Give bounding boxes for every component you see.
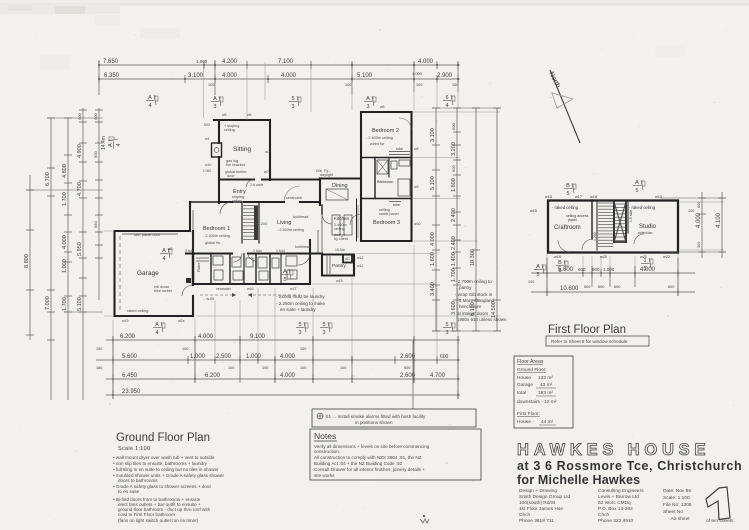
svg-text:5: 5	[322, 322, 325, 328]
svg-text:w16: w16	[545, 195, 552, 199]
chimney circle	[214, 148, 219, 153]
svg-text:Date: Nov 96: Date: Nov 96	[663, 488, 691, 494]
svg-text:w12: w12	[357, 256, 363, 260]
bath tub	[398, 179, 410, 196]
svg-text:ceiling: ceiling	[334, 227, 345, 231]
svg-text:ceiling: ceiling	[224, 128, 235, 132]
svg-text:Phone 322 4910: Phone 322 4910	[598, 518, 634, 524]
svg-text:bulkhead: bulkhead	[295, 245, 310, 249]
svg-text:3: 3	[213, 104, 216, 110]
svg-text:w19: w19	[122, 319, 128, 323]
first floor stair treads	[598, 202, 626, 246]
svg-text:global fin...: global fin...	[205, 241, 223, 245]
svg-text:1.700: 1.700	[62, 297, 68, 311]
svg-text:4.700: 4.700	[77, 182, 83, 196]
svg-text:3: 3	[366, 104, 369, 110]
svg-text:P.O. Box 13-282: P.O. Box 13-282	[598, 506, 633, 512]
svg-text:1.000: 1.000	[603, 267, 615, 272]
right side dims first floor	[701, 192, 703, 258]
svg-text:w13: w13	[336, 279, 342, 283]
bottom dims labels	[96, 334, 449, 395]
svg-text:4.000: 4.000	[418, 59, 434, 65]
svg-text:1.700: 1.700	[62, 192, 68, 206]
lower band partitions	[192, 254, 194, 285]
svg-text:w8: w8	[414, 147, 419, 151]
wing hallway walls	[356, 199, 358, 241]
lower band bottom wall y284	[193, 283, 310, 285]
svg-text:180: 180	[96, 366, 102, 370]
svg-text:5.100: 5.100	[430, 176, 436, 190]
kitchen bench	[317, 230, 319, 253]
section marker A/3 top	[211, 96, 223, 110]
svg-text:w15: w15	[530, 209, 537, 213]
svg-text:• full tiling in en suite to: • full tiling in en suite to ceiling but…	[113, 467, 219, 472]
bed3 robe slats	[389, 201, 401, 203]
section marker 6/4 top	[443, 95, 455, 109]
sitting room walls	[214, 119, 270, 121]
svg-text:1.000: 1.000	[196, 59, 208, 64]
svg-text:Sitting: Sitting	[233, 146, 251, 153]
bed2 robe slats	[389, 154, 410, 156]
left dimension lines	[26, 108, 103, 400]
garage post	[186, 278, 191, 283]
svg-text:w7: w7	[265, 149, 271, 154]
svg-text:1.000: 1.000	[62, 259, 68, 273]
svg-text:100: 100	[208, 83, 214, 87]
section marker 5/3 bottom	[296, 322, 308, 336]
svg-text:3 fold: 3 fold	[185, 249, 194, 253]
svg-text:6.350: 6.350	[104, 73, 120, 79]
svg-text:w5: w5	[247, 113, 252, 117]
paper noise specks	[336, 505, 337, 507]
svg-text:of ten sheets: of ten sheets	[706, 518, 734, 524]
svg-text:500: 500	[204, 123, 210, 127]
svg-text:51 ... Install smoke alarms f: 51 ... Install smoke alarms fitted with …	[326, 414, 426, 419]
scanner artifacts top edge	[0, 0, 749, 6]
section marker 5/3c bottom	[443, 322, 455, 336]
svg-text:2.6 wide: 2.6 wide	[250, 183, 263, 187]
svg-text:3: 3	[322, 330, 325, 336]
first floor dimension lines	[531, 192, 726, 296]
svg-text:A: A	[162, 248, 166, 254]
svg-text:600: 600	[598, 285, 604, 289]
svg-text:- 2.700m ceiling to: - 2.700m ceiling to	[455, 279, 492, 284]
svg-text:- raked ceiling: - raked ceiling	[629, 205, 656, 210]
svg-text:- 2.400m ceiling: - 2.400m ceiling	[277, 228, 304, 232]
svg-text:door: door	[227, 174, 235, 178]
svg-text:Bathroom: Bathroom	[377, 180, 393, 184]
bedroom2 / bathroom partition walls	[361, 157, 412, 159]
vanity	[399, 160, 410, 166]
svg-text:panel: panel	[568, 218, 577, 222]
svg-text:Bedroom 3: Bedroom 3	[373, 220, 400, 226]
svg-text:rolled fan: rolled fan	[638, 231, 652, 235]
svg-text:900: 900	[93, 151, 98, 158]
svg-text:w17: w17	[575, 195, 582, 199]
svg-text:100: 100	[340, 366, 346, 370]
section marker A/5 above first floor	[633, 180, 645, 194]
garage door track	[122, 233, 178, 235]
svg-text:10.600: 10.600	[560, 286, 579, 292]
right dims rotated labels	[430, 123, 497, 318]
top dimension labels	[103, 59, 458, 87]
svg-text:Robe: Robe	[196, 262, 201, 272]
verandah dashed lines	[200, 293, 300, 297]
svg-text:Chch: Chch	[598, 512, 610, 518]
svg-text:Consulting Engineers: Consulting Engineers	[598, 488, 644, 494]
svg-text:Pantry: Pantry	[332, 263, 346, 269]
svg-text:600: 600	[404, 366, 410, 370]
svg-text:• wall mount dryer over wash: • wall mount dryer over wash tub + vent …	[113, 455, 215, 460]
svg-text:5.100: 5.100	[77, 297, 83, 311]
svg-text:w4: w4	[205, 137, 210, 141]
svg-text:A: A	[148, 95, 152, 101]
svg-text:3.100: 3.100	[188, 73, 204, 79]
svg-text:5: 5	[291, 96, 294, 102]
svg-text:A: A	[155, 322, 159, 328]
svg-text:133 m²: 133 m²	[538, 375, 553, 381]
svg-text:43 m²: 43 m²	[540, 382, 553, 388]
svg-text:Building Act :04 + the NZ Buil: Building Act :04 + the NZ Building Code …	[314, 461, 403, 466]
svg-text:Notes: Notes	[314, 431, 336, 441]
svg-text:w16: w16	[247, 287, 253, 291]
svg-text:in positions shown: in positions shown	[355, 420, 393, 425]
ground floor bullet notes	[113, 455, 224, 523]
first floor dim labels	[528, 202, 722, 292]
wc	[391, 161, 397, 169]
svg-text:1.000: 1.000	[246, 354, 262, 360]
svg-text:6.450: 6.450	[122, 373, 138, 379]
svg-text:4: 4	[148, 103, 151, 109]
bedroom1 walls	[189, 202, 191, 231]
right wing outer walls	[361, 112, 412, 241]
svg-text:6.100: 6.100	[470, 302, 476, 316]
svg-text:6.700: 6.700	[45, 172, 51, 186]
svg-text:4.100: 4.100	[716, 212, 722, 228]
svg-text:100: 100	[528, 280, 534, 284]
svg-text:600: 600	[614, 285, 620, 289]
svg-text:bulkhead: bulkhead	[293, 215, 308, 219]
svg-text:w1b: w1b	[205, 163, 211, 167]
svg-text:Sheet No: Sheet No	[663, 509, 683, 515]
svg-text:15.5dc: 15.5dc	[335, 248, 345, 252]
svg-text:8.800: 8.800	[24, 254, 30, 268]
svg-text:Bedroom 1: Bedroom 1	[203, 226, 230, 232]
svg-text:Craftroom: Craftroom	[554, 225, 581, 231]
dining left wall	[319, 179, 321, 206]
svg-text:3.600: 3.600	[451, 301, 457, 315]
svg-text:6.200: 6.200	[120, 334, 136, 340]
svg-text:4.000: 4.000	[430, 232, 436, 246]
svg-text:Refer to Sheet 6 for window sc: Refer to Sheet 6 for window schedule	[551, 339, 628, 344]
svg-text:1.5 side: 1.5 side	[629, 210, 633, 222]
svg-text:1.000: 1.000	[190, 354, 206, 360]
svg-text:en suite + laundry: en suite + laundry	[280, 307, 316, 312]
svg-text:A: A	[635, 180, 639, 186]
wing hallway slats	[357, 205, 359, 238]
svg-text:5.600: 5.600	[122, 354, 138, 360]
svg-text:1.400: 1.400	[451, 252, 457, 266]
svg-text:150: 150	[96, 347, 102, 351]
top dimension lines	[99, 60, 460, 95]
svg-text:2.400: 2.400	[451, 208, 457, 222]
svg-text:100: 100	[300, 366, 306, 370]
svg-text:Garage: Garage	[517, 382, 533, 388]
svg-text:23.950: 23.950	[122, 389, 141, 395]
svg-text:4.000: 4.000	[280, 373, 296, 379]
svg-text:Dining: Dining	[332, 183, 348, 189]
svg-text:193 m²: 193 m²	[538, 390, 553, 396]
svg-text:All construction to comply wit: All construction to comply with NZS 3604…	[314, 455, 422, 460]
svg-text:3.200: 3.200	[451, 142, 457, 156]
svg-text:raked ceiling: raked ceiling	[127, 309, 148, 313]
svg-text:4.000: 4.000	[640, 267, 656, 273]
robe closet lines lower band	[196, 257, 209, 259]
svg-text:A: A	[283, 269, 287, 275]
svg-text:verandah: verandah	[286, 196, 302, 200]
svg-text:4.800: 4.800	[62, 164, 68, 178]
svg-text:600: 600	[584, 285, 590, 289]
svg-text:w18: w18	[590, 195, 597, 199]
svg-text:3: 3	[298, 330, 301, 336]
svg-text:600: 600	[451, 123, 456, 130]
svg-text:100(south) Rd/St: 100(south) Rd/St	[519, 500, 556, 506]
svg-text:sec. panel door: sec. panel door	[134, 233, 161, 237]
svg-text:Phone 3618 711: Phone 3618 711	[519, 518, 554, 524]
svg-text:600: 600	[440, 354, 449, 360]
sitting bottom / dining top wall y179.5	[219, 178, 320, 180]
window schedule reference box	[546, 336, 649, 346]
svg-text:robe: robe	[396, 147, 403, 151]
svg-text:900: 900	[592, 267, 600, 272]
plan notes near garage	[276, 294, 326, 312]
stair treads ground floor	[243, 206, 258, 241]
svg-text:5.950: 5.950	[77, 242, 83, 256]
svg-text:3.400: 3.400	[430, 282, 436, 296]
svg-text:A: A	[366, 96, 370, 102]
svg-text:- wrap Gib stock in: - wrap Gib stock in	[455, 292, 493, 297]
svg-text:• non slip tiles to ensuite,: • non slip tiles to ensuite, bathrooms +…	[113, 461, 208, 466]
svg-text:4: 4	[162, 256, 165, 262]
svg-text:A: A	[536, 264, 540, 270]
svg-text:1st Floor James Hse: 1st Floor James Hse	[519, 506, 563, 512]
svg-text:pantry: pantry	[459, 285, 472, 290]
svg-text:Smith Design Group Ltd: Smith Design Group Ltd	[519, 494, 571, 500]
svg-text:7.000: 7.000	[45, 296, 51, 310]
svg-text:62 Worc CMDq: 62 Worc CMDq	[598, 500, 631, 506]
svg-text:5: 5	[566, 191, 569, 197]
svg-text:w6: w6	[380, 105, 385, 109]
svg-text:2.900: 2.900	[437, 73, 453, 79]
svg-text:Design + Drawing: Design + Drawing	[519, 488, 557, 494]
svg-text:w20: w20	[600, 255, 607, 259]
svg-text:1980x 610 unless shown: 1980x 610 unless shown	[457, 317, 507, 322]
svg-text:- 2.250m ceiling to make: - 2.250m ceiling to make	[276, 301, 326, 306]
section marker 1/5 below first floor	[641, 258, 653, 272]
left dimension rotated labels	[24, 113, 107, 311]
svg-text:4.700: 4.700	[430, 373, 446, 379]
svg-text:2 fold: 2 fold	[253, 249, 262, 253]
svg-text:Garage: Garage	[137, 270, 159, 277]
svg-text:Ground Floor:: Ground Floor:	[517, 367, 547, 373]
stairwell walls	[241, 203, 243, 243]
svg-text:4.000: 4.000	[696, 212, 702, 228]
svg-text:3: 3	[291, 104, 294, 110]
svg-text:Chch: Chch	[519, 512, 531, 518]
svg-text:4.000: 4.000	[198, 334, 214, 340]
svg-text:500: 500	[93, 113, 98, 120]
first floor labels	[530, 195, 670, 259]
svg-text:cowl to First Floor bathroom: cowl to First Floor bathroom	[118, 512, 175, 517]
svg-text:w2a: w2a	[178, 319, 184, 323]
svg-text:7.650: 7.650	[103, 59, 119, 65]
svg-text:First Floor Plan: First Floor Plan	[548, 324, 626, 336]
svg-text:+2.200: +2.200	[255, 221, 268, 226]
svg-text:Studio: Studio	[639, 224, 657, 230]
svg-text:14.4m: 14.4m	[101, 136, 107, 150]
section marker A/4 in garage	[160, 248, 172, 262]
section marker A/4 top	[146, 95, 158, 109]
svg-text:Consult Drawer for all interio: Consult Drawer for all interior finishes…	[314, 467, 425, 472]
svg-text:First Floor:: First Floor:	[517, 411, 540, 417]
svg-text:w9: w9	[414, 185, 419, 189]
svg-text:1.000: 1.000	[412, 71, 423, 76]
svg-text:100: 100	[300, 347, 306, 351]
svg-text:5: 5	[558, 268, 561, 274]
section marker A/3b top	[364, 96, 376, 110]
bed1 wardrobe	[192, 210, 194, 248]
section marker B/5 below first floor	[556, 260, 568, 274]
svg-text:3.100: 3.100	[430, 128, 436, 142]
svg-text:Scale: 1:100: Scale: 1:100	[663, 495, 690, 501]
leader line to smoke box	[412, 341, 414, 409]
sitting chimney	[212, 143, 222, 157]
svg-text:600: 600	[668, 285, 674, 289]
svg-text:5: 5	[283, 277, 286, 283]
small annotations ground floor	[122, 105, 420, 323]
svg-text:100: 100	[262, 366, 268, 370]
title block small text column 1	[519, 488, 571, 524]
svg-text:100: 100	[228, 366, 234, 370]
first floor walls	[548, 200, 678, 253]
small scribble bottom center	[420, 515, 429, 523]
svg-text:1.600: 1.600	[430, 252, 436, 266]
svg-text:w5: w5	[222, 113, 227, 117]
svg-text:5: 5	[298, 322, 301, 328]
witness construction lines	[104, 62, 724, 396]
door swing arcs	[182, 118, 412, 296]
lower band top wall y253.5	[186, 252, 322, 254]
svg-text:w17: w17	[290, 287, 296, 291]
svg-text:950: 950	[93, 221, 98, 228]
svg-text:2.500: 2.500	[216, 354, 232, 360]
svg-text:for Michelle Hawkes: for Michelle Hawkes	[517, 473, 640, 487]
svg-text:1: 1	[643, 258, 646, 264]
kitchen wall stub	[321, 205, 323, 214]
svg-text:construction.: construction.	[314, 449, 340, 454]
notes box	[310, 429, 481, 480]
svg-text:5: 5	[643, 266, 646, 272]
svg-text:5: 5	[635, 188, 638, 194]
section marker 4/5 mid	[534, 264, 546, 278]
svg-text:44 m²: 44 m²	[541, 419, 554, 425]
bathroom wing fixtures: shower	[377, 160, 388, 174]
svg-text:Floor Areas: Floor Areas	[517, 359, 544, 365]
svg-text:House -: House -	[517, 419, 534, 425]
svg-text:100: 100	[688, 209, 694, 213]
svg-text:w11: w11	[357, 264, 363, 268]
svg-text:- 2.400m ceiling: - 2.400m ceiling	[366, 136, 393, 140]
svg-text:4: 4	[116, 143, 122, 146]
svg-text:at 3 6 Rossmore Tce, Christc: at 3 6 Rossmore Tce, Christchurch	[517, 459, 742, 473]
svg-text:site works: site works	[314, 473, 335, 478]
svg-text:2.400: 2.400	[451, 236, 457, 250]
svg-text:1.700: 1.700	[451, 268, 457, 282]
svg-text:doors to bathrooms: doors to bathrooms	[118, 478, 158, 483]
svg-text:w19: w19	[554, 255, 561, 259]
pantry walls	[322, 253, 354, 255]
svg-text:4.000: 4.000	[222, 73, 238, 79]
svg-text:500: 500	[77, 113, 82, 120]
svg-text:6.200: 6.200	[205, 373, 221, 379]
ground floor walls	[115, 112, 412, 316]
section marker B/5 above first floor	[564, 183, 576, 197]
laundry tub	[286, 256, 297, 266]
svg-text:House: House	[517, 375, 531, 381]
svg-text:Ground Floor Plan: Ground Floor Plan	[116, 432, 210, 444]
svg-text:Bedroom 2: Bedroom 2	[372, 128, 399, 134]
svg-text:total: total	[517, 390, 526, 396]
bottom dimension lines ground floor	[96, 336, 460, 399]
svg-text:(fans on light switch outlet r: (fans on light switch outlet run on time…	[118, 518, 199, 523]
svg-text:4.900: 4.900	[77, 144, 83, 158]
svg-text:daylight: daylight	[320, 173, 334, 177]
section marker A/4 left rotated	[108, 137, 122, 149]
smoke alarm note box	[312, 409, 476, 427]
svg-text:A: A	[108, 143, 114, 147]
dimension intersection dots	[98, 64, 679, 396]
AC closet	[343, 255, 352, 263]
north arrow	[547, 70, 580, 143]
svg-text:1 fold: 1 fold	[276, 249, 285, 253]
svg-text:100: 100	[452, 83, 458, 87]
verandah lower wall y202	[219, 201, 320, 203]
svg-text:100: 100	[345, 83, 351, 87]
first floor door arcs	[558, 234, 644, 252]
section marker 5/34 bottom	[320, 322, 332, 336]
svg-text:1.600: 1.600	[451, 178, 457, 192]
svg-text:Lewis + Barrow Ltd: Lewis + Barrow Ltd	[598, 494, 639, 500]
svg-text:File No: 1306: File No: 1306	[663, 502, 692, 508]
svg-text:ceiling: ceiling	[232, 199, 242, 203]
title block small text column 3	[663, 488, 692, 522]
svg-text:wired for: wired for	[370, 142, 385, 146]
svg-text:- raked ceiling: - raked ceiling	[552, 205, 579, 210]
dining table	[326, 189, 348, 200]
svg-text:4.000: 4.000	[281, 73, 297, 79]
ensuite fixtures	[213, 256, 223, 265]
svg-text:5.100: 5.100	[357, 73, 373, 79]
svg-text:14.500: 14.500	[491, 301, 497, 318]
svg-text:w22: w22	[663, 255, 670, 259]
svg-text:1.060: 1.060	[203, 169, 211, 173]
svg-text:1.200: 1.200	[593, 232, 597, 241]
floor areas box	[514, 356, 573, 428]
svg-text:downstairs - 12 m²: downstairs - 12 m²	[517, 399, 557, 405]
svg-text:- 2.400m ceiling: - 2.400m ceiling	[203, 234, 230, 238]
svg-text:AC: AC	[345, 257, 350, 261]
svg-text:w10: w10	[414, 222, 420, 226]
